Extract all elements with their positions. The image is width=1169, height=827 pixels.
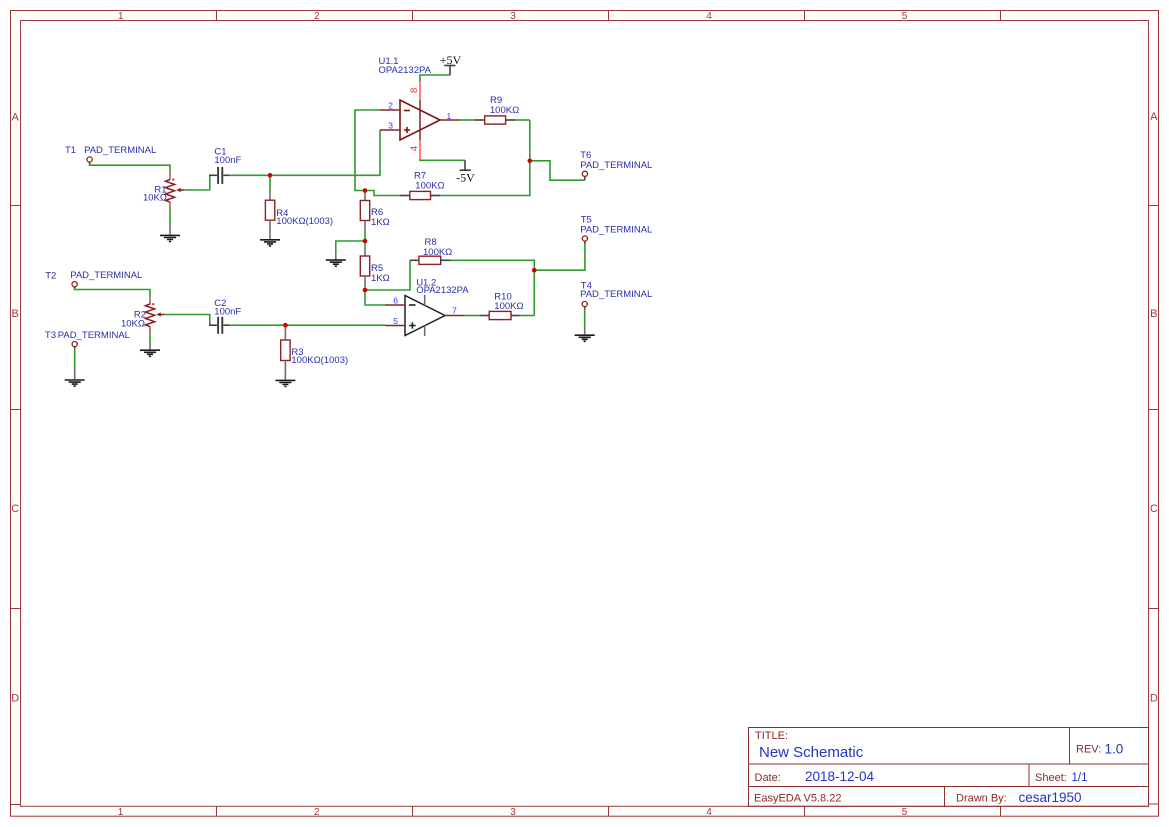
wire node E to T6 [530,161,585,180]
wire R3 to ground [284,361,286,380]
svg-text:T1: T1 [65,145,76,156]
svg-text:TITLE:: TITLE: [755,730,788,742]
pad terminal T4 [580,281,652,309]
svg-text:3: 3 [510,11,516,22]
svg-text:cesar1950: cesar1950 [1019,790,1082,805]
svg-text:10KΩ: 10KΩ [121,319,145,330]
op-amp U1.2 OPA2132PA [405,277,469,336]
capacitor C2 100nF [209,298,241,334]
svg-text:7: 7 [452,305,457,315]
resistor R4 100KΩ(1003) [265,200,333,227]
svg-text:PAD_TERMINAL: PAD_TERMINAL [70,270,142,281]
svg-text:PAD_TERMINAL: PAD_TERMINAL [580,160,652,171]
potentiometer R1 10KΩ [143,171,185,210]
TITLEBLOCK [749,728,1149,807]
frame left band bottom tick [10,804,20,806]
potentiometer R2 10KΩ [121,296,165,335]
svg-text:PAD_TERMINAL: PAD_TERMINAL [580,289,652,300]
wire R10 to node D riser [520,315,535,317]
ground (R4) [260,240,280,246]
svg-text:A: A [1150,111,1158,123]
wire C2 to U1.2 pin5 [229,324,385,326]
svg-text:C: C [1150,503,1158,515]
wire T5 to node D [534,244,585,271]
U1.1 pin 4 power stub [419,140,421,160]
svg-text:2: 2 [314,807,320,818]
frame top column numbers [118,11,908,22]
svg-text:100KΩ(1003): 100KΩ(1003) [276,216,333,227]
frame right band bottom tick [1149,803,1159,805]
svg-text:1: 1 [118,11,124,22]
ground (R1) [160,235,180,241]
ground (node B) [326,260,346,266]
svg-text:PAD_TERMINAL: PAD_TERMINAL [58,330,130,341]
title block row line 2 [749,786,1149,788]
wire T3 to ground [74,348,76,370]
svg-text:100nF: 100nF [214,307,241,318]
svg-text:8: 8 [409,88,420,93]
junction node B (R6/R5) [363,239,368,244]
svg-text:5: 5 [902,11,908,22]
wire R2 wiper to C2 [164,315,210,326]
title block DrawnBy divider [944,787,946,807]
svg-text:Date:: Date: [755,772,781,784]
svg-text:Drawn By:: Drawn By: [956,793,1007,805]
frame bottom column numbers [118,807,908,818]
svg-text:3: 3 [388,121,393,131]
junction node D (R8/R10/T5) [532,268,537,273]
svg-text:2: 2 [314,11,320,22]
svg-text:1KΩ: 1KΩ [371,217,390,228]
junction node C1/R4 [268,173,273,178]
resistor R6 1KΩ [360,201,389,229]
SCHEMATIC [45,53,652,387]
wire R1 wiper to C1 [184,175,210,190]
svg-text:1.0: 1.0 [1105,741,1124,756]
title block Sheet divider [1028,764,1030,787]
op-amp U1.1 OPA2132PA [379,56,441,140]
wire T2 to R2 [75,288,150,296]
+5V supply symbol [440,53,462,75]
svg-text:+5V: +5V [440,53,462,67]
svg-text:New Schematic: New Schematic [759,744,864,761]
frame left ticks [10,206,20,609]
svg-text:1: 1 [118,807,124,818]
svg-text:1/1: 1/1 [1072,772,1088,784]
U1.1 pin 2 [380,109,400,111]
U1.2 pin 7 output [445,315,465,317]
svg-text:B: B [12,308,19,320]
U1.2 pin 5 [385,325,405,327]
frame right row letters [1150,111,1158,705]
ground (T4) [575,335,595,341]
wire T4 to ground [584,309,586,326]
wire node C to R8 [365,260,410,290]
pad terminal T5 [580,215,652,245]
resistor R5 1KΩ [360,256,389,284]
junction node E (T6 tap) [528,159,533,164]
svg-text:D: D [1150,693,1158,705]
title block outline [749,728,1149,807]
svg-text:1: 1 [447,111,452,121]
svg-text:1KΩ: 1KΩ [371,273,390,284]
svg-text:Sheet:: Sheet: [1035,772,1067,784]
svg-text:-5V: -5V [456,170,475,184]
ground (R2) [140,350,160,356]
wire R5 to node C [364,276,366,286]
svg-text:6: 6 [393,296,398,306]
wire R7 to R9 riser [440,120,530,196]
resistor R8 100KΩ [410,237,452,265]
wire R2 bottom to ground [149,335,151,342]
U1.1 pin 3 [380,129,400,131]
capacitor C1 100nF [209,147,242,184]
svg-text:3: 3 [510,807,516,818]
svg-text:B: B [1150,308,1157,320]
svg-text:2: 2 [388,101,393,111]
wire R9 to feedback riser [515,119,530,121]
wire node A to R6 [364,192,366,201]
resistor R7 100KΩ [400,171,445,200]
U1.1 pin 8 power stub [419,81,421,101]
svg-text:T2: T2 [45,271,56,282]
svg-text:EasyEDA V5.8.22: EasyEDA V5.8.22 [754,793,841,805]
svg-text:100nF: 100nF [214,155,241,166]
wire node C to U1.2 pin6 [365,290,385,305]
resistor R9 100KΩ [475,95,519,124]
svg-text:100KΩ: 100KΩ [490,105,519,116]
wire node B to R5 [364,241,366,246]
frame top ticks [217,10,1001,20]
svg-text:5: 5 [393,316,398,326]
svg-text:T3: T3 [45,330,56,341]
wire U1.2 output to R10 [465,315,481,317]
wire R6 to node B [364,221,366,232]
wire node B to ground [336,241,365,251]
svg-text:REV:: REV: [1076,743,1101,755]
wire R1 bottom to ground [169,210,171,226]
svg-text:OPA2132PA: OPA2132PA [416,285,469,296]
wire pin4 to -5V [420,159,465,162]
junction node C (R5/R8/U1.2 pin6) [363,288,368,293]
junction node A (R6 top) [363,188,368,193]
wire C1 to node and U1.1 pin3 riser [229,130,380,175]
wire T1 to R1 [90,164,170,172]
pad terminal T1 [65,145,156,164]
wire U1.1 pin2 to node A [355,110,380,191]
resistor R3 100KΩ(1003) [281,340,348,366]
wire pin8 to +5V [420,75,450,81]
pad terminal T3 [45,330,130,348]
svg-text:100KΩ(1003): 100KΩ(1003) [291,355,348,366]
wire node to R3 [284,325,286,340]
svg-text:100KΩ: 100KΩ [415,180,444,191]
svg-text:5: 5 [902,807,908,818]
U1.1 pin 1 output [440,119,460,121]
frame left row letters [11,112,19,705]
frame right ticks [1149,206,1159,609]
-5V supply symbol [456,160,475,184]
svg-text:C: C [11,503,19,515]
pad terminal T2 [45,270,142,288]
U1.2 pin 6 [385,304,405,306]
svg-text:4: 4 [706,807,712,818]
wire R8 to node D riser [451,260,535,315]
ground (T3) [65,380,85,386]
pad terminal T6 [580,150,652,180]
junction node C2/R3 [283,323,288,328]
svg-text:PAD_TERMINAL: PAD_TERMINAL [580,225,652,236]
ground (R3) [275,380,295,386]
wire node A to R7 [365,191,400,196]
wire U1.1 output to R9 [460,119,475,121]
svg-text:2018-12-04: 2018-12-04 [805,769,875,784]
wire R4 to ground [269,220,271,239]
frame bottom ticks [217,806,1001,816]
wire node to R4 [269,175,271,190]
resistor R10 100KΩ [480,291,523,319]
svg-text:4: 4 [706,11,712,22]
svg-text:4: 4 [409,146,420,151]
svg-text:100KΩ: 100KΩ [494,301,523,312]
title block REV divider [1069,728,1071,765]
svg-text:PAD_TERMINAL: PAD_TERMINAL [84,145,156,156]
svg-text:A: A [12,112,20,124]
title block row line 1 [749,763,1149,765]
svg-text:D: D [11,693,19,705]
